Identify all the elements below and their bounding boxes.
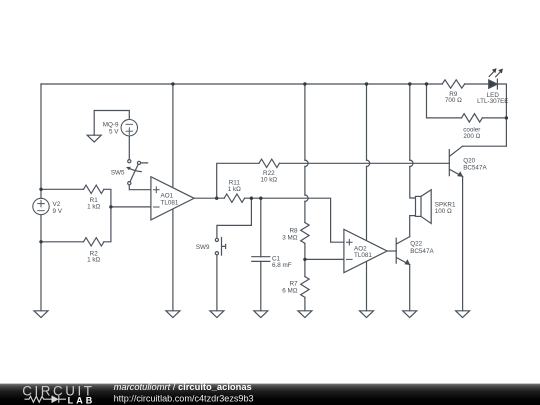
wire AO1 power vertical [172,84,174,311]
svg-text:10 kΩ: 10 kΩ [260,177,277,184]
label R7 [282,280,298,294]
svg-text:V2: V2 [53,201,61,208]
svg-text:SW9: SW9 [196,244,210,251]
svg-text:1 kΩ: 1 kΩ [87,203,100,210]
wire R11 right to corner AO2 plus [245,198,344,242]
svg-text:marcotuliomrt / circuito_acion: marcotuliomrt / circuito_acionas [114,382,252,392]
footer url line [114,394,254,404]
svg-text:6.8 mF: 6.8 mF [272,262,292,269]
label SW9 [196,244,210,251]
hop x305 y163 [305,160,308,166]
switch SW5 [126,160,148,185]
wire Q22 collector to speaker bottom [410,216,416,237]
hop x366 y163 [367,160,370,166]
svg-text:100 Ω: 100 Ω [435,208,452,215]
svg-text:Q20: Q20 [463,158,475,165]
speaker SPKR1 [416,190,432,224]
svg-text:R7: R7 [289,280,298,287]
label cooler [463,127,480,140]
switch SW9 [215,238,225,256]
svg-text:3 MΩ: 3 MΩ [282,235,297,242]
wire R2 branch [41,207,111,242]
label SW5 [111,170,125,177]
voltage source V2 [33,198,49,214]
label C1 [272,255,292,269]
label LED [477,92,508,105]
label R8 [282,228,298,242]
ground Q20 [456,311,470,318]
wire R8 R7 node to AO2 minus input [305,258,344,260]
ground MQ-9 [87,135,101,142]
junction dot V2 bottom [39,240,42,243]
logo CIRCUIT text [22,383,94,398]
label Q22 [410,241,434,256]
svg-text:R8: R8 [289,228,298,235]
svg-text:5 V: 5 V [109,129,119,136]
svg-text:AO1: AO1 [161,192,174,199]
resistor R11 [224,194,244,202]
op-amp AO2 [344,229,387,272]
wire Q20 emitter to ground [462,177,464,311]
junction dot C1 tap [259,197,262,200]
svg-text:6 MΩ: 6 MΩ [282,287,297,294]
label R11 [228,180,241,194]
svg-text:BC547A: BC547A [463,165,487,172]
wire AO1 output [194,197,224,199]
LED LED1 [489,68,503,89]
svg-text:MQ-9: MQ-9 [103,122,119,129]
svg-text:BC547A: BC547A [410,248,434,255]
logo resistor diode glyph [25,396,67,403]
wire R1R2 node to AO1 minus input [111,206,151,208]
op-amp AO1 [151,177,194,220]
junction dot SW9 tap [250,197,253,200]
svg-text:Q22: Q22 [410,241,422,248]
label R22 [260,170,277,184]
resistor R1 [84,185,104,193]
wire MQ-9 ground link [94,111,129,136]
wire left rail [40,84,42,311]
wire AO2 power vertical with hop [366,84,368,311]
junction dot V2 top [39,188,42,191]
ground R7 [298,311,312,318]
label R2 [87,250,100,263]
wire R1 branch [41,189,111,207]
ground left rail [34,311,48,318]
svg-text:LAB: LAB [68,396,96,405]
junction dot cooler LED node [505,116,508,119]
wire Q22 emitter to ground [409,265,411,311]
junction dots top rail [171,82,174,85]
resistor R9 [442,80,464,88]
wire Q20 collector horizontal [463,145,507,147]
wire C1 branch [260,198,262,311]
junction dot R1 R2 node [109,205,112,208]
transistor Q22 [396,237,410,265]
label Q20 [463,158,487,172]
svg-text:SW5: SW5 [111,170,125,177]
wire MQ-9 to SW5 [128,136,130,160]
junction dot AO1 output [215,197,218,200]
ground AO1 [166,311,180,318]
label V2 [53,201,63,215]
label R1 [87,197,100,210]
junction dot R8 R7 node [303,258,306,261]
hop x305 y198 [305,195,308,201]
ground Q22 [403,311,417,318]
voltage source MQ-9 [121,120,137,136]
ground SW9 [210,311,224,318]
wire LED cathode to corner and down [498,84,507,146]
label MQ-9 [103,122,120,136]
wire AO2 output to Q22 base [387,250,396,252]
resistor R22 [259,159,279,167]
svg-text:200 Ω: 200 Ω [463,133,480,140]
svg-text:1 kΩ: 1 kΩ [228,186,241,193]
svg-text:http://circuitlab.com/c4tzdr3e: http://circuitlab.com/c4tzdr3ezs9b3 [114,394,254,404]
svg-text:700 Ω: 700 Ω [445,97,462,104]
footer attribution line [114,382,252,392]
wire top rail [41,83,489,85]
resistor R8 [301,223,309,244]
ground AO2 [360,311,374,318]
footer bar [0,384,540,405]
svg-text:1 kΩ: 1 kΩ [87,257,100,264]
resistor R7 [301,277,309,298]
resistor cooler [462,114,483,122]
wire R22 branch [217,163,450,198]
hop x410 y163 [410,160,413,166]
wire speaker top vertical with hop [410,84,416,198]
label AO2 [354,245,372,259]
wire cooler branch from rail [427,84,507,118]
svg-text:9 V: 9 V [53,208,63,215]
wire SW9 branch [217,198,252,311]
label AO1 [161,192,179,206]
wire SW5 to AO1 plus input [129,185,151,190]
transistor Q20 [449,146,463,177]
wire R8 R7 vertical with hops [304,84,306,311]
capacitor C1 [252,257,270,262]
svg-text:LTL-307EE: LTL-307EE [477,98,508,105]
resistor R2 [84,238,104,246]
label R9 [445,91,462,104]
logo LAB text [68,396,96,405]
label SPKR1 [435,202,456,216]
svg-text:TL081: TL081 [161,199,179,206]
ground C1 [254,311,268,318]
svg-text:TL081: TL081 [354,252,372,259]
